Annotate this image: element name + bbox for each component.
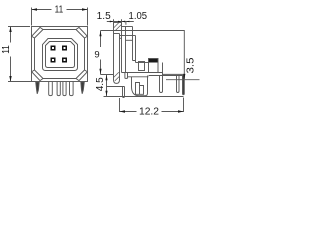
- standoff line right: [149, 75, 185, 77]
- svg-text:1.5: 1.5: [97, 11, 111, 22]
- dimension 3.5 bottom extension: [166, 79, 200, 81]
- front view leg 2: [57, 82, 60, 96]
- svg-text:9: 9: [94, 50, 99, 61]
- contact pin box: [149, 59, 159, 73]
- housing inner outline: [46, 42, 75, 68]
- right leg 1: [160, 76, 163, 93]
- front view inner shell octagon: [35, 30, 85, 79]
- standoff line left: [128, 76, 149, 78]
- dimension 4.5: line: [104, 75, 184, 97]
- shell horizontal line b: [120, 37, 122, 39]
- board lock inner rect short: [140, 86, 144, 95]
- mounting claw left: [36, 82, 40, 94]
- dimension 11 left: extension lines: [8, 27, 37, 82]
- board lock inner rect tall: [136, 83, 140, 95]
- flange plate back edge: [121, 23, 123, 73]
- small stub under body: [125, 73, 128, 79]
- svg-text:11: 11: [1, 45, 12, 54]
- shell inner vertical: [125, 27, 127, 73]
- mounting claw right: [81, 82, 85, 94]
- svg-text:4.5: 4.5: [95, 77, 106, 91]
- flange bottom tab rounded end: [114, 79, 120, 83]
- svg-text:12.2: 12.2: [139, 106, 159, 117]
- front view leg 1: [49, 82, 53, 96]
- front view leg 3: [63, 82, 66, 96]
- dimension 9: extension and line: [101, 31, 114, 75]
- rear body mid line: [122, 72, 163, 74]
- chamfer facet bottom-left: [32, 70, 43, 81]
- rear body block top: [136, 62, 149, 64]
- pin 1 (top-left): [51, 46, 56, 51]
- front view leg 4: [70, 82, 74, 96]
- shell shelf line: [114, 33, 120, 35]
- chamfer facet top-right: [76, 27, 87, 38]
- dimension 11 top: extension lines: [32, 8, 88, 26]
- dimension 9 arrows: [99, 31, 101, 36]
- flange plate inner edge: [119, 34, 121, 81]
- shell top edge: [122, 26, 133, 28]
- pin 4 (bottom-right): [62, 58, 67, 63]
- dimension 1.05 arrows: [118, 21, 121, 23]
- right leg 3 (contact lead, dark): [183, 76, 185, 95]
- rear body block right: [162, 63, 164, 76]
- contact black cap: [149, 59, 159, 63]
- dimension 11 left: line and arrows: [10, 27, 12, 82]
- svg-text:11: 11: [55, 5, 64, 16]
- flange hatch bottom: [114, 72, 120, 81]
- shell horizontal line a: [120, 35, 136, 37]
- right leg 2: [177, 76, 180, 93]
- flange plate top edge: [114, 22, 122, 24]
- housing outer outline: [43, 39, 78, 71]
- dimension 12.2 arrows: [120, 110, 126, 112]
- dimension 12.2 extension lines: [120, 98, 184, 113]
- dimension 4.5 arrows: [105, 75, 107, 80]
- shell step to rear: [133, 36, 136, 63]
- dimension 11 top: line and arrows: [32, 9, 88, 11]
- dimension 1.5 / 1.05 line: [107, 21, 134, 23]
- dimension ticks: [114, 19, 126, 25]
- shell right edge upper: [132, 27, 134, 61]
- left leg: [123, 87, 125, 98]
- svg-text:3.5: 3.5: [186, 57, 197, 73]
- board lock U outline: [132, 76, 148, 96]
- chamfer facet bottom-right: [76, 70, 87, 81]
- side view flange plate front edge: [113, 23, 115, 81]
- shell horizontal line c: [126, 39, 133, 41]
- svg-text:1.05: 1.05: [129, 11, 148, 22]
- small peg box: [139, 62, 145, 71]
- dimension 3.5 arrow: [183, 74, 185, 79]
- bottom left body line: [107, 86, 125, 88]
- front view outer shell square: [32, 27, 88, 82]
- contact lead top line: [163, 73, 185, 75]
- pin 2 (top-right): [62, 46, 67, 51]
- dimension 12.2 line: [120, 111, 184, 113]
- pin 3 (bottom-left): [51, 58, 56, 63]
- long feature line to 3.5 dim: [101, 31, 185, 80]
- flange hatch top: [114, 23, 122, 31]
- dimension 1.5 arrows: [110, 21, 114, 23]
- chamfer facet top-left: [32, 27, 43, 38]
